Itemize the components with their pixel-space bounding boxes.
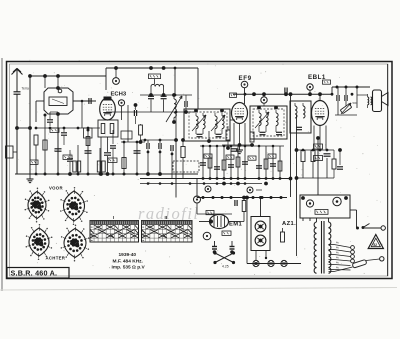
svg-text:S.B.R. 460 A.: S.B.R. 460 A. bbox=[11, 269, 58, 278]
svg-text:500: 500 bbox=[353, 101, 358, 105]
svg-text:EM1: EM1 bbox=[229, 222, 242, 228]
svg-text:II: II bbox=[165, 215, 168, 220]
svg-text:Imp. 535 Ω p.V: Imp. 535 Ω p.V bbox=[112, 265, 146, 271]
svg-text:4.25: 4.25 bbox=[222, 265, 229, 269]
svg-text:AZ1.: AZ1. bbox=[282, 221, 296, 227]
svg-text:M.F. 484 KHz.: M.F. 484 KHz. bbox=[113, 258, 143, 264]
svg-text:VOOR: VOOR bbox=[49, 186, 63, 191]
svg-text:ECH3: ECH3 bbox=[111, 92, 127, 98]
svg-text:Terra: Terra bbox=[22, 87, 29, 91]
svg-text:I: I bbox=[113, 215, 114, 220]
svg-text:1939-40: 1939-40 bbox=[119, 252, 137, 258]
svg-text:ACHTER: ACHTER bbox=[46, 256, 66, 261]
svg-text:52: 52 bbox=[373, 243, 377, 247]
